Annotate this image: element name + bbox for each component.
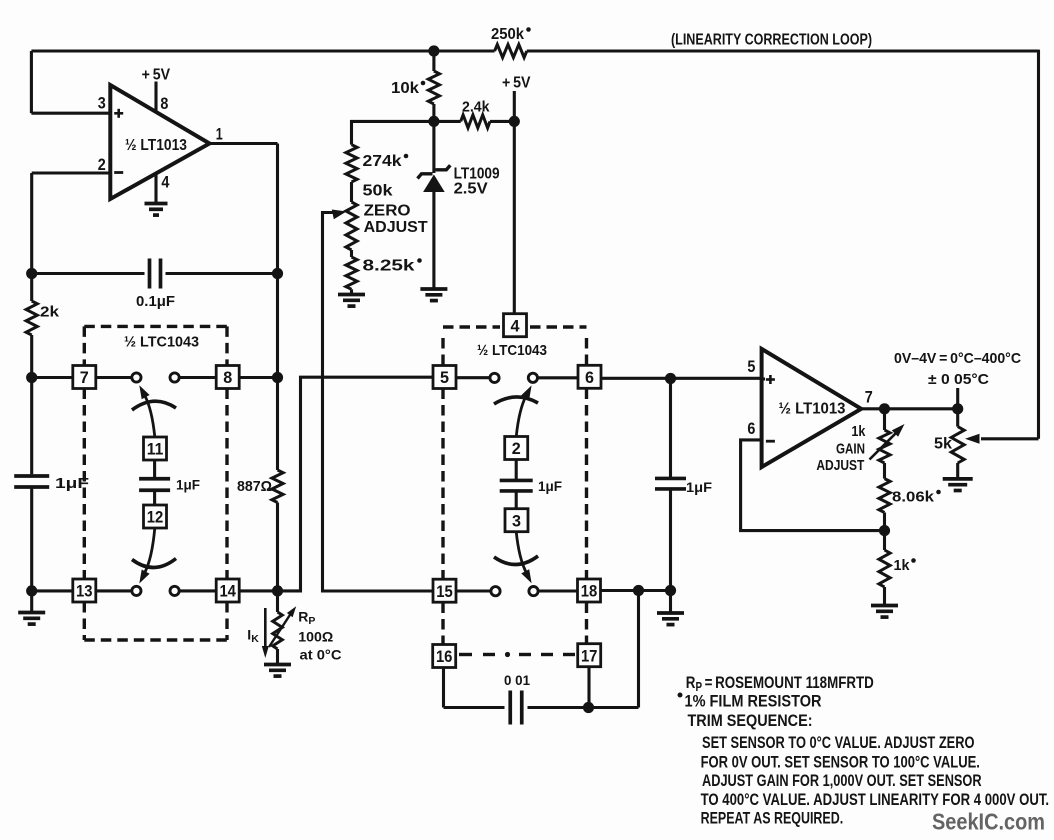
- svg-text:2k: 2k: [40, 304, 60, 321]
- svg-text:4: 4: [161, 173, 169, 192]
- svg-text:15: 15: [436, 582, 453, 601]
- svg-text:+ 5V: + 5V: [502, 75, 531, 92]
- svg-text:8.06k: 8.06k: [892, 489, 935, 506]
- svg-text:1k: 1k: [894, 557, 911, 574]
- svg-text:½ LT1013: ½ LT1013: [779, 401, 846, 418]
- svg-text:8.25k: 8.25k: [363, 258, 415, 275]
- svg-text:2: 2: [512, 439, 521, 458]
- svg-text:5: 5: [747, 357, 755, 376]
- svg-text:0V–4V = 0°C–400°C: 0V–4V = 0°C–400°C: [894, 350, 1021, 367]
- svg-text:1μF: 1μF: [686, 480, 712, 495]
- svg-text:0 01: 0 01: [504, 672, 530, 688]
- svg-text:18: 18: [581, 582, 598, 601]
- svg-text:6: 6: [747, 419, 755, 438]
- svg-text:12: 12: [147, 508, 164, 527]
- svg-text:½ LTC1043: ½ LTC1043: [477, 342, 547, 359]
- svg-text:IK: IK: [247, 627, 259, 646]
- svg-text:17: 17: [581, 646, 598, 665]
- svg-text:11: 11: [147, 440, 164, 459]
- svg-text:REPEAT AS REQUIRED.: REPEAT AS REQUIRED.: [701, 809, 844, 828]
- svg-text:2: 2: [98, 155, 106, 174]
- svg-text:5k: 5k: [934, 436, 952, 453]
- svg-text:1% FILM RESISTOR: 1% FILM RESISTOR: [685, 692, 822, 711]
- svg-text:RP: RP: [298, 609, 315, 628]
- svg-text:5: 5: [440, 368, 449, 387]
- svg-text:at 0°C: at 0°C: [300, 647, 342, 663]
- svg-text:SET SENSOR TO 0°C VALUE. ADJUS: SET SENSOR TO 0°C VALUE. ADJUST ZERO: [702, 733, 975, 752]
- svg-text:3: 3: [512, 511, 521, 530]
- svg-text:50k: 50k: [363, 183, 393, 200]
- svg-text:GAIN: GAIN: [836, 441, 865, 458]
- svg-text:1μF: 1μF: [176, 478, 200, 493]
- svg-text:± 0 05°C: ± 0 05°C: [928, 371, 989, 388]
- svg-text:ZERO: ZERO: [364, 203, 411, 220]
- svg-text:1μF: 1μF: [55, 475, 89, 492]
- svg-text:7: 7: [865, 387, 873, 406]
- svg-text:10k: 10k: [391, 80, 419, 97]
- svg-text:8: 8: [160, 94, 168, 113]
- svg-text:3: 3: [98, 94, 106, 113]
- svg-text:0.1μF: 0.1μF: [136, 293, 175, 310]
- svg-text:250k: 250k: [491, 26, 524, 43]
- svg-text:2.4k: 2.4k: [462, 99, 490, 116]
- svg-text:ADJUST GAIN FOR 1,000V OUT. SE: ADJUST GAIN FOR 1,000V OUT. SET SENSOR: [702, 771, 982, 790]
- svg-text:TO 400°C VALUE. ADJUST LINEARI: TO 400°C VALUE. ADJUST LINEARITY FOR 4 0…: [701, 790, 1050, 809]
- svg-text:(LINEARITY CORRECTION LOOP): (LINEARITY CORRECTION LOOP): [671, 32, 872, 49]
- svg-text:ADJUST: ADJUST: [364, 219, 429, 236]
- svg-text:FOR 0V OUT. SET SENSOR TO 100°: FOR 0V OUT. SET SENSOR TO 100°C VALUE.: [701, 753, 980, 772]
- svg-text:16: 16: [436, 647, 453, 666]
- svg-text:887Ω: 887Ω: [237, 478, 272, 495]
- svg-text:2.5V: 2.5V: [454, 181, 489, 198]
- svg-text:1k: 1k: [851, 423, 866, 440]
- svg-text:4: 4: [511, 316, 521, 335]
- svg-text:1: 1: [216, 125, 223, 144]
- svg-text:+ 5V: + 5V: [142, 66, 171, 83]
- svg-text:13: 13: [76, 582, 93, 601]
- svg-text:TRIM SEQUENCE:: TRIM SEQUENCE:: [688, 711, 813, 730]
- svg-text:274k: 274k: [363, 153, 402, 170]
- svg-text:7: 7: [80, 368, 89, 387]
- svg-text:½ LTC1043: ½ LTC1043: [124, 334, 199, 351]
- svg-text:8: 8: [223, 368, 232, 387]
- svg-text:SeekIC.com: SeekIC.com: [932, 809, 1045, 835]
- svg-text:100Ω: 100Ω: [298, 629, 333, 645]
- svg-text:6: 6: [585, 368, 594, 387]
- svg-text:ADJUST: ADJUST: [816, 457, 864, 474]
- svg-text:½ LT1013: ½ LT1013: [125, 137, 187, 154]
- svg-text:14: 14: [219, 582, 236, 601]
- svg-text:1μF: 1μF: [538, 479, 562, 494]
